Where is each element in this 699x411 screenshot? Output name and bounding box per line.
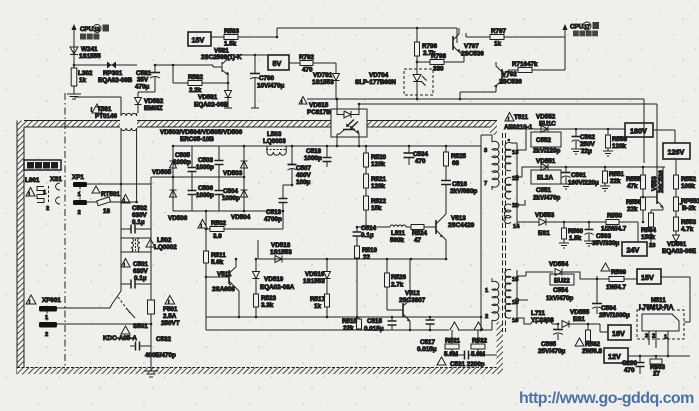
svg-text:5V: 5V xyxy=(273,59,282,68)
svg-text:PT0146: PT0146 xyxy=(95,113,118,120)
svg-text:22: 22 xyxy=(363,254,371,261)
wire tap15 to VD554 row xyxy=(517,275,526,277)
resistor R554 150k xyxy=(641,213,657,243)
svg-text:VD515: VD515 xyxy=(309,102,329,109)
svg-text:5.6k: 5.6k xyxy=(211,259,224,266)
inductor L711 YC0308 xyxy=(531,310,558,324)
svg-text:VD518: VD518 xyxy=(271,242,291,249)
isolation hatch band bottom xyxy=(17,368,503,375)
transformer T581 PT0146 xyxy=(74,97,137,202)
varistor RP301 EQA02-09B (bowtie) xyxy=(98,62,133,85)
svg-text:2W/6.8: 2W/6.8 xyxy=(582,348,602,355)
wire main low rails xyxy=(206,316,481,318)
transistor V797 2SC536 xyxy=(453,28,484,62)
svg-text:V513: V513 xyxy=(451,215,466,222)
svg-text:470: 470 xyxy=(624,367,635,374)
diode VD519 EQA02-08A xyxy=(253,258,295,294)
svg-text:126V: 126V xyxy=(668,148,685,157)
svg-text:ES1: ES1 xyxy=(538,230,550,237)
svg-text:R583: R583 xyxy=(224,28,240,35)
diode VD552 EU1C xyxy=(536,114,556,133)
svg-text:C515: C515 xyxy=(367,318,383,325)
resistor R798 330 xyxy=(416,53,464,73)
svg-text:R515: R515 xyxy=(342,318,358,325)
wire XP1 pin1 xyxy=(87,183,121,185)
svg-text:3.3k: 3.3k xyxy=(261,302,274,309)
svg-text:0.1μ: 0.1μ xyxy=(361,232,374,239)
svg-text:35V/330μ: 35V/330μ xyxy=(592,240,619,247)
svg-text:10V/470μ: 10V/470μ xyxy=(257,83,284,90)
svg-text:R531: R531 xyxy=(445,338,461,345)
svg-text:VD561: VD561 xyxy=(667,241,687,248)
svg-text:C562: C562 xyxy=(580,134,596,141)
winding T511 secondary 13-12 xyxy=(505,142,511,170)
resistor R583 1.5k xyxy=(211,28,277,48)
svg-text:R521: R521 xyxy=(371,176,387,183)
diode VD506 xyxy=(168,190,188,222)
svg-text:LQ0003: LQ0003 xyxy=(263,138,286,145)
svg-text:2kV/220p: 2kV/220p xyxy=(533,148,560,155)
svg-text:VD791: VD791 xyxy=(313,72,333,79)
svg-text:VD503/VD504/VD505/VD506: VD503/VD504/VD505/VD506 xyxy=(160,129,243,136)
capacitor C503 1000p xyxy=(196,146,224,177)
box 18V xyxy=(600,324,631,340)
svg-text:YC0308: YC0308 xyxy=(531,317,554,324)
diode VD791 1S1553 xyxy=(312,63,340,99)
svg-text:VD704: VD704 xyxy=(369,72,389,79)
fuse F501 2.5A 250VT xyxy=(148,295,180,346)
svg-text:C502: C502 xyxy=(132,205,148,212)
bridge rectifier VD503/VD504/VD505/VD506 ERC05-10B xyxy=(160,129,243,143)
resistor R515 22k xyxy=(342,317,362,332)
boundary dash-dot line left xyxy=(64,93,66,370)
svg-text:2SA608: 2SA608 xyxy=(212,286,235,293)
winding T511 secondary 11-14 xyxy=(504,204,511,223)
diode VD555 ES1 xyxy=(557,309,600,328)
wire tap12 to EL2A row xyxy=(517,167,532,177)
svg-text:470μ: 470μ xyxy=(135,84,150,91)
diode VD505 xyxy=(152,161,177,176)
svg-text:EQA02-08A: EQA02-08A xyxy=(260,284,295,291)
svg-text:3.9: 3.9 xyxy=(213,233,222,240)
svg-text:R523: R523 xyxy=(261,295,277,302)
svg-text:R551: R551 xyxy=(609,171,625,178)
svg-text:2kV/680p: 2kV/680p xyxy=(450,188,477,195)
svg-text:R532: R532 xyxy=(472,338,488,345)
wire rail y65 from C581 to 5V xyxy=(155,64,213,66)
capacitor C534 470 xyxy=(404,146,429,165)
wire node W241 to L302/RP301 xyxy=(74,64,137,66)
resistor R558 120k xyxy=(603,129,628,156)
svg-text:RP551: RP551 xyxy=(681,198,699,205)
svg-text:1S1553: 1S1553 xyxy=(312,79,334,86)
svg-text:1k: 1k xyxy=(494,41,502,48)
svg-text:1.5k: 1.5k xyxy=(224,41,237,48)
svg-text:18V: 18V xyxy=(612,329,625,338)
resistor R550 1/2W/4.7 xyxy=(601,213,627,233)
potentiometer RP551 B-2k xyxy=(674,197,699,217)
transistor V581 2SC2568(1)-K xyxy=(201,48,242,76)
diode VD503 xyxy=(223,161,248,177)
svg-text:1k: 1k xyxy=(79,77,87,84)
svg-text:1000p: 1000p xyxy=(196,192,214,199)
svg-text:R562: R562 xyxy=(585,341,601,348)
svg-text:EQA02-09B: EQA02-09B xyxy=(98,77,133,84)
svg-text:V797: V797 xyxy=(464,43,479,50)
svg-text:R569: R569 xyxy=(611,269,627,276)
svg-text:2: 2 xyxy=(46,206,49,212)
wire drive row y227 xyxy=(357,226,390,228)
box 15V (standby supply) xyxy=(188,32,211,46)
capacitor C564 25V/1000u xyxy=(592,276,630,319)
svg-text:12V: 12V xyxy=(608,352,621,361)
capacitor C517 0.015u xyxy=(417,316,437,353)
svg-text:4700p: 4700p xyxy=(264,216,282,223)
switch S501 KDC-A05-A xyxy=(103,291,148,342)
svg-text:B-2k: B-2k xyxy=(682,205,696,212)
svg-text:RT501: RT501 xyxy=(101,191,120,198)
svg-text:AE0210-1: AE0210-1 xyxy=(504,124,533,131)
svg-text:L502: L502 xyxy=(157,237,172,244)
svg-text:2SC536: 2SC536 xyxy=(658,170,665,193)
svg-text:C505: C505 xyxy=(175,152,191,159)
wire B+ rail y146 xyxy=(258,145,481,147)
wire feedback rails to V553/R552 xyxy=(643,99,645,167)
svg-text:470: 470 xyxy=(302,67,313,74)
svg-text:CPU: CPU xyxy=(570,24,584,31)
svg-text:R792: R792 xyxy=(299,54,315,61)
svg-text:47: 47 xyxy=(414,237,422,244)
svg-text:C534: C534 xyxy=(413,151,429,158)
svg-text:R502: R502 xyxy=(211,220,227,227)
resistor R517 1k xyxy=(310,294,330,317)
svg-text:15: 15 xyxy=(512,277,519,283)
svg-text:R525: R525 xyxy=(451,153,467,160)
wire tap11 stub xyxy=(517,200,525,205)
isolation hatch band top xyxy=(24,121,120,128)
svg-text:400V: 400V xyxy=(296,172,312,179)
capacitor C504 1000p xyxy=(215,177,241,211)
resistor R555 47k xyxy=(626,167,646,222)
svg-text:27: 27 xyxy=(653,371,661,378)
winding T511 secondary 15-16-10 xyxy=(505,269,511,318)
svg-text:C564: C564 xyxy=(601,305,617,312)
svg-text:25V/470μ: 25V/470μ xyxy=(538,348,565,355)
svg-text:VD581: VD581 xyxy=(198,94,218,101)
capacitor C290 470 xyxy=(622,356,645,374)
svg-text:1kV/470p: 1kV/470p xyxy=(546,295,573,302)
wire control rail y259 xyxy=(258,258,446,260)
svg-text:VD552: VD552 xyxy=(536,114,556,121)
svg-text:2.2k: 2.2k xyxy=(189,87,202,94)
svg-text:EQA02-06B: EQA02-06B xyxy=(194,102,229,109)
resistor R582 2.2k xyxy=(172,64,230,94)
svg-text:13: 13 xyxy=(94,27,100,33)
connector XP1 xyxy=(72,174,87,216)
coil L901 xyxy=(25,177,49,203)
resistor R792 470 xyxy=(289,54,336,74)
svg-text:2SC3807: 2SC3807 xyxy=(399,297,426,304)
svg-text:18: 18 xyxy=(103,208,111,215)
resistor R525 68 xyxy=(444,146,467,180)
svg-text:68: 68 xyxy=(452,160,460,167)
svg-text:C506: C506 xyxy=(198,185,214,192)
svg-text:C514: C514 xyxy=(361,225,377,232)
capacitor C513 4700p xyxy=(264,184,293,229)
winding T511 secondary 12-11 xyxy=(505,177,511,199)
svg-text:0.1μ: 0.1μ xyxy=(132,219,145,226)
capacitor C501 630V 0.1u xyxy=(121,259,151,289)
svg-text:C513: C513 xyxy=(266,209,282,216)
choke L503 LQ0003 xyxy=(263,131,286,155)
capacitor C516 2kV/680p xyxy=(441,181,477,214)
svg-text:R555: R555 xyxy=(626,176,642,183)
svg-text:15V: 15V xyxy=(641,273,654,282)
svg-text:VD506: VD506 xyxy=(168,215,188,222)
svg-text:C554: C554 xyxy=(553,287,569,294)
svg-text:R524: R524 xyxy=(412,230,428,237)
wire top rail to V797 xyxy=(276,36,279,39)
svg-text:330: 330 xyxy=(433,66,444,73)
svg-text:C517: C517 xyxy=(420,339,436,346)
wire bridge frame xyxy=(173,145,258,147)
socket XS1 xyxy=(43,176,62,212)
svg-text:SLP-177B60N: SLP-177B60N xyxy=(355,79,396,86)
svg-text:C565: C565 xyxy=(541,341,557,348)
inductor L302 1k xyxy=(71,65,93,94)
wire mains rails xyxy=(121,183,151,185)
svg-text:C532: C532 xyxy=(156,336,172,343)
resistor R551 22k xyxy=(600,167,625,191)
svg-text:XP901: XP901 xyxy=(42,297,61,304)
choke L502 LQ0002 xyxy=(121,237,177,252)
svg-text:120k: 120k xyxy=(612,143,627,150)
svg-text:2SC536: 2SC536 xyxy=(461,51,484,58)
resistor R524 47 xyxy=(406,225,436,245)
svg-text:2: 2 xyxy=(485,314,488,320)
diode VD551 xyxy=(536,158,556,171)
svg-text:N511: N511 xyxy=(651,297,666,304)
svg-text:1/2W/4.7: 1/2W/4.7 xyxy=(601,226,627,233)
svg-text:R517: R517 xyxy=(310,296,326,303)
svg-text:C518: C518 xyxy=(306,148,322,155)
svg-text:1W/4.7: 1W/4.7 xyxy=(606,284,626,291)
transistor V511 2SA608 xyxy=(205,258,239,317)
svg-text:R519: R519 xyxy=(362,247,378,254)
transistor V512 2SC3807 xyxy=(387,259,426,331)
svg-text:15V: 15V xyxy=(192,36,205,45)
diode VD561 EQA02-06E xyxy=(662,235,696,255)
svg-text:XS1: XS1 xyxy=(50,176,62,183)
svg-text:2: 2 xyxy=(652,334,655,340)
box 126V xyxy=(653,130,690,159)
svg-text:VD551: VD551 xyxy=(536,158,556,165)
isolation hatch band left xyxy=(17,121,24,375)
svg-text:F501: F501 xyxy=(163,306,178,313)
svg-text:C504: C504 xyxy=(223,188,239,195)
svg-text:R522: R522 xyxy=(371,198,387,205)
transistor V553 2SC536 xyxy=(642,167,665,213)
diode VD581 EQA02-06B xyxy=(194,83,232,109)
box 180V xyxy=(625,123,653,137)
svg-text:ES1: ES1 xyxy=(573,316,585,323)
svg-text:C563: C563 xyxy=(596,233,612,240)
diode VD554 EU22 xyxy=(546,261,574,302)
box 24V xyxy=(622,242,656,256)
svg-text:V553: V553 xyxy=(651,176,658,191)
capacitor C532 400E/470p xyxy=(130,323,176,377)
svg-text:C531 2200p: C531 2200p xyxy=(450,361,485,368)
svg-text:150k: 150k xyxy=(641,234,656,241)
svg-text:24V: 24V xyxy=(627,246,640,255)
svg-text:V511: V511 xyxy=(217,271,232,278)
svg-text:L711: L711 xyxy=(531,310,546,317)
capacitor C552 2kV/220p xyxy=(531,132,561,155)
capacitor C514 0.1u xyxy=(353,225,377,246)
wire T511 primary left rail xyxy=(480,135,482,330)
svg-text:W241: W241 xyxy=(81,46,98,53)
resistor R569 1W/4.7 xyxy=(601,263,627,291)
resistor R560 1.5k xyxy=(559,222,584,248)
svg-text:C507: C507 xyxy=(296,165,312,172)
capacitor C551 2kV/470p xyxy=(533,187,560,202)
svg-text:560k: 560k xyxy=(390,237,405,244)
wire rail y99 (cold feedback) xyxy=(307,98,644,100)
svg-text:C501: C501 xyxy=(133,261,149,268)
regulator N511 L78M12-RA xyxy=(637,277,690,356)
resistor R796 2.7k xyxy=(415,27,438,62)
core T511 (dashed, isolation) xyxy=(502,133,504,332)
svg-text:250V: 250V xyxy=(580,141,596,148)
resistor R797 1k xyxy=(457,28,565,48)
svg-text:23: 23 xyxy=(649,243,656,249)
capacitor C565 25V/470u xyxy=(538,324,565,355)
svg-text:17: 17 xyxy=(584,25,590,31)
capacitor C502 630V 0.1u xyxy=(121,195,151,234)
wire tap10 to L711 row xyxy=(517,318,531,324)
wire tap13 to VD552 row xyxy=(517,129,535,150)
svg-text:L511: L511 xyxy=(391,230,406,237)
diode VD516 1S1553 xyxy=(303,259,331,294)
connector XP901 xyxy=(26,295,61,338)
diode VD553 ES1 xyxy=(535,212,555,237)
resistor R521 120k xyxy=(364,174,387,196)
capacitor C790 10V/470u xyxy=(250,54,284,108)
winding T511 primary 1-2 xyxy=(492,281,499,320)
svg-text:ERC05-10B: ERC05-10B xyxy=(180,136,214,143)
wire tap14 to VD553 row xyxy=(517,221,539,223)
isolation hatch strip right vertical at transformer xyxy=(497,322,504,372)
svg-text:2SC4429: 2SC4429 xyxy=(448,222,475,229)
ground (L302 / T581) xyxy=(67,94,81,99)
svg-text:VD504: VD504 xyxy=(231,214,251,221)
optocoupler VD515 PC817B xyxy=(299,97,367,147)
svg-text:R582: R582 xyxy=(188,74,204,81)
svg-text:EL2A: EL2A xyxy=(537,175,554,182)
capacitor C561 160V/220u xyxy=(561,167,599,189)
resistor R552 100k xyxy=(674,159,697,197)
svg-text:RP301: RP301 xyxy=(103,70,123,77)
svg-text:VD582: VD582 xyxy=(144,98,164,105)
svg-text:EQA02-06E: EQA02-06E xyxy=(662,248,696,255)
resistor R563 27 xyxy=(650,356,666,378)
svg-text:R554: R554 xyxy=(641,227,657,234)
resistor R562 2W/6.8 xyxy=(575,324,602,355)
svg-text:C552: C552 xyxy=(536,137,552,144)
svg-text:2kV/470p: 2kV/470p xyxy=(533,195,560,202)
box 12V xyxy=(604,348,628,363)
svg-text:KDC-A05-A: KDC-A05-A xyxy=(103,335,137,342)
svg-text:1S1555: 1S1555 xyxy=(79,53,101,60)
svg-text:1000p: 1000p xyxy=(196,164,214,171)
svg-text:PC817B: PC817B xyxy=(307,109,331,116)
svg-text:2SC536: 2SC536 xyxy=(499,79,522,86)
svg-text:2: 2 xyxy=(78,210,81,216)
svg-text:1S1553: 1S1553 xyxy=(303,278,325,285)
svg-text:R553: R553 xyxy=(681,219,697,226)
svg-text:C790: C790 xyxy=(259,75,275,82)
svg-text:VD503: VD503 xyxy=(223,170,243,177)
svg-text:V792: V792 xyxy=(502,71,517,78)
svg-text:EU22: EU22 xyxy=(554,278,570,285)
svg-text:VD516: VD516 xyxy=(305,271,325,278)
node CPU pin13 protect xyxy=(71,24,109,65)
svg-text:R520: R520 xyxy=(371,154,387,161)
resistor R532 5.6M xyxy=(471,322,488,358)
svg-text:CPU: CPU xyxy=(80,26,94,33)
svg-text:7: 7 xyxy=(484,181,487,187)
resistor R523 3.3k xyxy=(254,294,277,317)
svg-text:100μ: 100μ xyxy=(296,179,311,186)
diode EL2A box xyxy=(531,170,561,184)
wire 12V row y356 xyxy=(628,355,690,357)
svg-text:VD519: VD519 xyxy=(264,276,284,283)
thermistor RT501 18 xyxy=(87,106,137,215)
capacitor C581 35V 470u xyxy=(135,64,160,92)
svg-text:R556: R556 xyxy=(626,199,642,206)
resistor R553 4.7k xyxy=(674,217,697,235)
resistor R526 2.7k xyxy=(385,259,407,310)
capacitor C507 400V 100u xyxy=(288,146,312,186)
capacitor C515 0.015u xyxy=(364,316,397,333)
photo diode VD704 SLP-177B60N xyxy=(355,58,433,99)
svg-text:2.5A: 2.5A xyxy=(163,313,177,320)
transistor V792 2SC536 xyxy=(460,62,522,99)
transformer T511 AE0210-1 xyxy=(504,113,533,132)
svg-text:C561: C561 xyxy=(571,172,587,179)
svg-text:R798: R798 xyxy=(431,53,447,60)
svg-text:630V: 630V xyxy=(133,268,149,275)
capacitor C518 1000p xyxy=(304,146,332,167)
svg-text:L901: L901 xyxy=(25,177,40,184)
polarity dot xyxy=(507,139,510,142)
label box degaussing coil xyxy=(24,160,61,170)
svg-text:2: 2 xyxy=(45,332,48,338)
svg-text:C551: C551 xyxy=(536,187,552,194)
svg-text:160V/220μ: 160V/220μ xyxy=(568,180,599,187)
wire rail y104 xyxy=(359,103,657,105)
capacitor C505 1000p xyxy=(173,146,197,177)
svg-text:2.7k: 2.7k xyxy=(391,282,404,289)
svg-text:T511: T511 xyxy=(514,114,529,121)
capacitor C562 250V 22u xyxy=(571,129,596,155)
svg-text:0.015μ: 0.015μ xyxy=(417,346,437,353)
resistor R502 3.9 xyxy=(198,210,283,240)
wire tap16 stub xyxy=(517,299,528,301)
svg-text:VD505: VD505 xyxy=(152,169,172,176)
svg-text:V512: V512 xyxy=(405,290,420,297)
transistor V513 2SC4429 xyxy=(436,213,475,259)
